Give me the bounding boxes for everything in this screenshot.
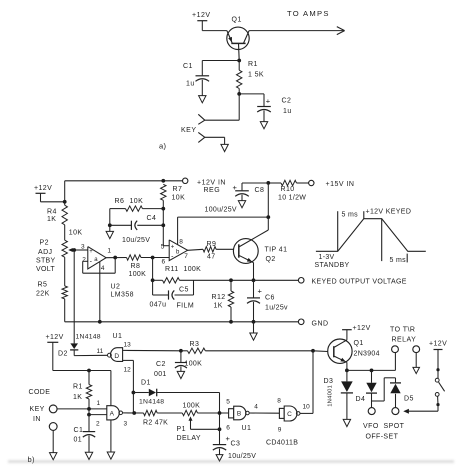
svg-text:CODE: CODE	[29, 389, 51, 396]
svg-text:1: 1	[97, 400, 101, 407]
svg-text:10 1/2W: 10 1/2W	[278, 195, 306, 202]
svg-text:P1: P1	[177, 426, 186, 433]
svg-text:3: 3	[81, 244, 85, 251]
svg-text:C1: C1	[183, 63, 193, 70]
svg-text:R3: R3	[190, 341, 200, 348]
svg-text:D1: D1	[141, 380, 151, 387]
svg-text:+12V: +12V	[429, 341, 447, 348]
svg-text:TO T\R: TO T\R	[390, 327, 415, 334]
svg-text:C4: C4	[147, 215, 157, 222]
svg-text:100K: 100K	[183, 403, 201, 410]
svg-text:+: +	[258, 286, 263, 295]
svg-text:+12V IN: +12V IN	[197, 179, 226, 186]
svg-text:047u: 047u	[150, 302, 167, 309]
svg-text:C8: C8	[255, 187, 265, 194]
svg-text:D5: D5	[404, 396, 414, 403]
svg-text:C3: C3	[231, 440, 241, 447]
svg-text:C2: C2	[282, 97, 292, 104]
svg-text:10u/25V: 10u/25V	[122, 237, 150, 244]
svg-text:ADJ: ADJ	[38, 249, 52, 256]
svg-text:12: 12	[124, 367, 132, 374]
svg-text:R12: R12	[212, 294, 226, 301]
svg-text:1N4148: 1N4148	[76, 334, 101, 341]
svg-text:9: 9	[278, 426, 282, 433]
svg-text:+12V KEYED: +12V KEYED	[366, 209, 412, 216]
svg-text:U1: U1	[242, 425, 252, 432]
svg-text:+12V: +12V	[353, 325, 371, 332]
svg-text:10: 10	[303, 404, 311, 411]
svg-text:11: 11	[97, 348, 104, 355]
svg-text:+: +	[89, 249, 93, 255]
svg-text:5 ms: 5 ms	[342, 212, 359, 219]
svg-text:10u/25V: 10u/25V	[228, 453, 256, 460]
svg-text:C1: C1	[74, 427, 84, 434]
svg-text:Q1: Q1	[232, 16, 242, 23]
svg-text:U1: U1	[113, 333, 123, 340]
svg-text:VFO: VFO	[363, 423, 379, 430]
svg-text:KEY: KEY	[181, 127, 197, 134]
svg-text:13: 13	[124, 342, 132, 349]
svg-text:D: D	[114, 353, 119, 360]
svg-text:C6: C6	[265, 295, 275, 302]
svg-text:6: 6	[162, 259, 166, 266]
svg-text:+12V: +12V	[192, 12, 211, 19]
svg-text:D4: D4	[356, 396, 366, 403]
svg-text:a): a)	[159, 141, 166, 150]
svg-text:IN: IN	[33, 416, 41, 423]
svg-text:R7: R7	[173, 186, 183, 193]
svg-text:1u: 1u	[186, 81, 195, 88]
svg-text:R8: R8	[131, 263, 141, 270]
svg-text:STBY: STBY	[36, 258, 56, 265]
svg-text:1K: 1K	[214, 303, 223, 310]
svg-text:5: 5	[161, 244, 165, 251]
svg-text:5 ms: 5 ms	[390, 257, 407, 264]
svg-text:100u/25V: 100u/25V	[205, 207, 237, 214]
svg-text:LM358: LM358	[111, 292, 134, 299]
svg-text:7: 7	[184, 253, 188, 260]
svg-text:TIP 41: TIP 41	[265, 247, 288, 254]
svg-text:2N3904: 2N3904	[354, 351, 380, 358]
svg-text:22K: 22K	[36, 291, 50, 298]
svg-text:TO AMPS: TO AMPS	[287, 9, 330, 18]
svg-text:R11: R11	[165, 266, 179, 273]
svg-text:100K: 100K	[185, 360, 203, 367]
svg-text:8: 8	[179, 239, 183, 246]
svg-text:R1: R1	[248, 61, 258, 68]
svg-text:R4: R4	[47, 208, 57, 215]
svg-text:KEY: KEY	[30, 406, 45, 413]
svg-text:1-3V: 1-3V	[319, 254, 335, 261]
svg-text:4: 4	[254, 403, 258, 410]
svg-text:+: +	[171, 244, 175, 250]
svg-text:2: 2	[96, 420, 100, 427]
svg-text:Q2: Q2	[266, 256, 276, 263]
svg-text:+12V: +12V	[46, 334, 64, 341]
svg-text:10K: 10K	[69, 230, 83, 237]
svg-text:U2: U2	[111, 284, 121, 291]
svg-text:RELAY: RELAY	[392, 337, 417, 344]
svg-text:1 5K: 1 5K	[248, 71, 264, 78]
svg-text:CD4011B: CD4011B	[266, 440, 298, 447]
svg-text:REG: REG	[204, 187, 221, 194]
svg-text:C2: C2	[156, 361, 166, 368]
svg-text:1K: 1K	[47, 216, 56, 223]
svg-text:4: 4	[101, 265, 105, 272]
svg-text:FILM: FILM	[177, 302, 195, 309]
svg-text:1K: 1K	[73, 394, 82, 401]
svg-text:STANDBY: STANDBY	[315, 262, 350, 269]
svg-text:OFF-SET: OFF-SET	[366, 433, 399, 440]
svg-text:100K: 100K	[184, 266, 202, 273]
svg-text:P2: P2	[40, 239, 49, 246]
svg-text:A: A	[110, 411, 115, 418]
svg-text:SPOT: SPOT	[384, 423, 405, 430]
svg-text:01: 01	[74, 436, 83, 443]
svg-text:Q1: Q1	[354, 340, 364, 347]
svg-text:VOLT: VOLT	[36, 266, 55, 273]
svg-text:+15V IN: +15V IN	[326, 181, 355, 188]
svg-text:R5: R5	[38, 282, 48, 289]
svg-text:6: 6	[226, 425, 230, 432]
svg-text:KEYED OUTPUT VOLTAGE: KEYED OUTPUT VOLTAGE	[312, 279, 407, 286]
svg-text:D2: D2	[58, 351, 68, 358]
svg-text:10K: 10K	[130, 198, 144, 205]
svg-text:1N4001: 1N4001	[327, 385, 333, 407]
svg-text:R2 47K: R2 47K	[143, 420, 168, 427]
svg-text:C5: C5	[179, 287, 189, 294]
svg-text:C: C	[287, 411, 292, 418]
svg-text:B: B	[237, 411, 241, 418]
svg-text:8: 8	[277, 398, 281, 405]
svg-text:D3: D3	[324, 378, 334, 385]
svg-text:+: +	[266, 96, 271, 105]
svg-text:+12V: +12V	[34, 185, 52, 192]
svg-text:DELAY: DELAY	[177, 435, 201, 442]
svg-text:1u: 1u	[283, 108, 292, 115]
svg-text:3: 3	[124, 420, 128, 427]
svg-text:5: 5	[226, 399, 230, 406]
svg-text:001: 001	[154, 371, 167, 378]
svg-text:1: 1	[107, 247, 111, 254]
svg-text:47: 47	[207, 253, 216, 260]
svg-text:R10: R10	[281, 186, 295, 193]
svg-text:GND: GND	[312, 320, 329, 327]
svg-text:R1: R1	[73, 384, 83, 391]
svg-text:R9: R9	[207, 241, 217, 248]
svg-text:1u/25v: 1u/25v	[265, 305, 288, 312]
svg-text:R6: R6	[115, 198, 125, 205]
svg-text:100K: 100K	[129, 271, 147, 278]
svg-text:1N4148: 1N4148	[139, 399, 164, 406]
svg-text:10K: 10K	[172, 195, 186, 202]
